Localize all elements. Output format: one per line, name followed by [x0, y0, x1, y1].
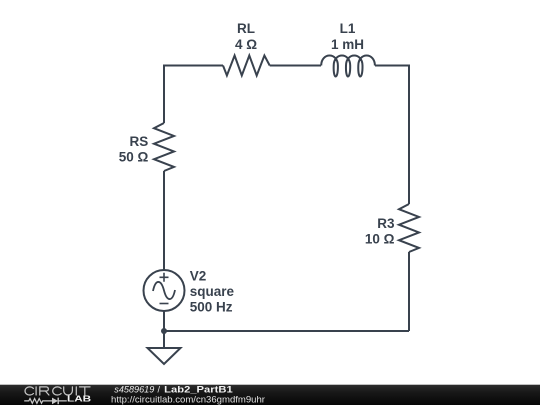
source V2 minus [160, 303, 169, 305]
svg-text:RS: RS [130, 134, 149, 149]
CircuitLab logo wordmark CIRCUIT [25, 387, 90, 395]
svg-text:V2: V2 [190, 269, 207, 284]
svg-text:R3: R3 [377, 216, 395, 231]
source V2 sine wave [153, 282, 175, 299]
wire V2 to ground node [163, 311, 165, 348]
source V2 body [144, 270, 185, 311]
svg-text:L1: L1 [340, 21, 356, 36]
svg-text:10 Ω: 10 Ω [365, 232, 395, 247]
svg-text:500 Hz: 500 Hz [190, 299, 233, 314]
wire top-left (node between RS and RL) [164, 66, 223, 124]
wire bottom (node V2- to R3) [164, 330, 409, 332]
wire top-right (node between L1 and R3) [375, 66, 409, 205]
svg-text:RL: RL [237, 21, 255, 36]
resistor RL [223, 56, 270, 76]
wire right-bottom (R3 to bottom node) [408, 252, 410, 331]
ground [148, 348, 181, 364]
resistor R3 [399, 204, 419, 252]
svg-text:square: square [190, 284, 235, 299]
inductor L1 [321, 56, 375, 77]
svg-text:http://circuitlab.com/cn36gmdf: http://circuitlab.com/cn36gmdfm9uhr [111, 395, 265, 405]
resistor RS [154, 123, 174, 171]
svg-text:Lab2_PartB1: Lab2_PartB1 [164, 385, 233, 395]
svg-text:LAB: LAB [67, 394, 91, 404]
svg-text:1 mH: 1 mH [331, 37, 364, 52]
junction node at V2 minus / bottom wire [161, 328, 167, 334]
source V2 plus [160, 273, 169, 282]
footer bar [0, 385, 540, 405]
CircuitLab logo resistor-diode glyph [24, 398, 67, 405]
wire RL to L1 [270, 65, 321, 67]
svg-text:4 Ω: 4 Ω [235, 37, 257, 52]
svg-text:s4589619: s4589619 [114, 385, 154, 395]
svg-text:50 Ω: 50 Ω [119, 150, 149, 165]
wire RS to V2 [163, 171, 165, 270]
